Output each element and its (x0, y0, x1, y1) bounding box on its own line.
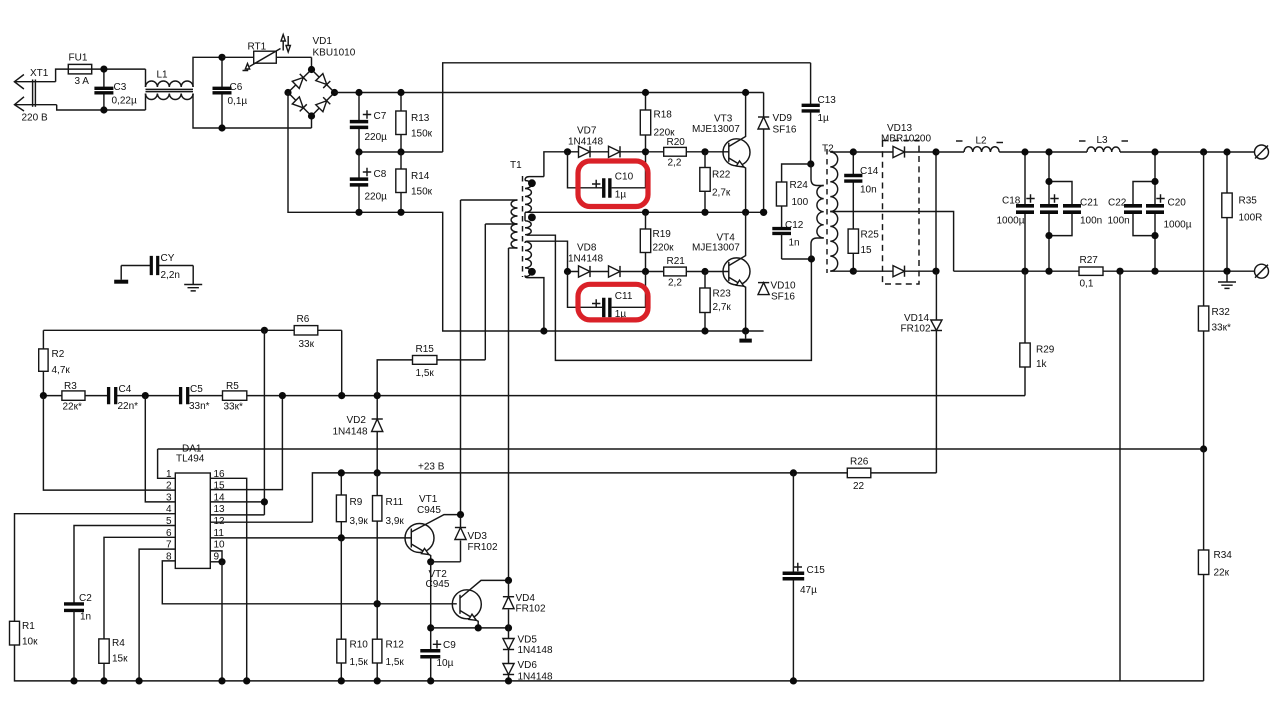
svg-text:1N4148: 1N4148 (568, 137, 603, 148)
svg-text:FR102: FR102 (468, 542, 498, 553)
transistor VT3 MJE13007 (705, 151, 729, 153)
transistor VT1 C945 (405, 524, 434, 553)
svg-text:RT1: RT1 (248, 42, 267, 53)
svg-text:1n: 1n (80, 612, 91, 623)
wire pin16 to ground (210, 478, 246, 681)
node R13 top (397, 89, 404, 96)
wire pin2 to R2-R3 node (43, 396, 175, 491)
resistor R14 (400, 152, 402, 212)
wire output plus rail (936, 151, 964, 153)
diode VD2 1N4148 (376, 396, 378, 419)
svg-text:SF16: SF16 (771, 292, 795, 303)
svg-text:C5: C5 (190, 384, 203, 395)
wire VT1 emitter to C9 (430, 562, 432, 650)
node C20 bottom (1151, 268, 1158, 275)
resistor R23 (704, 272, 706, 332)
resistor R9 (340, 473, 342, 495)
diode VD9 SF16 (763, 93, 765, 213)
svg-text:2,7к: 2,7к (712, 188, 731, 199)
node R23 bottom (701, 327, 708, 334)
svg-text:220к: 220к (653, 243, 675, 254)
svg-text:CY: CY (161, 253, 175, 264)
svg-text:220µ: 220µ (365, 192, 388, 203)
svg-text:220 В: 220 В (22, 113, 48, 124)
svg-text:FR102: FR102 (516, 604, 546, 615)
svg-text:22к: 22к (1214, 568, 1230, 579)
capacitor C11 (568, 272, 603, 308)
fuse FU1 (68, 68, 145, 70)
inductor L1 (145, 69, 147, 87)
node R11 bottom VT2 base (374, 600, 381, 607)
node emitter rail left (427, 624, 434, 631)
diode VD8 (two in series) (568, 271, 706, 273)
VD13 top diode (853, 151, 936, 153)
node bridge right (331, 89, 338, 96)
svg-text:R26: R26 (850, 457, 869, 468)
capacitor C4 (109, 387, 116, 404)
svg-text:KBU1010: KBU1010 (313, 48, 356, 59)
capacitor C6 (221, 57, 223, 88)
svg-text:1N4148: 1N4148 (518, 645, 553, 656)
ground symbol at VT4 emitter (745, 331, 747, 339)
transistor VT2 C945 (452, 590, 481, 619)
wire R6 to comp rail (341, 330, 343, 395)
svg-text:15к: 15к (112, 654, 128, 665)
wire pin10-pin9 to ground (210, 551, 222, 562)
svg-text:C2: C2 (79, 593, 92, 604)
node C2 bottom (70, 677, 77, 684)
node sense divider top (1200, 148, 1207, 155)
svg-text:100R: 100R (1239, 213, 1263, 224)
wire pin15 riser (210, 396, 282, 490)
svg-text:R2: R2 (52, 349, 65, 360)
capacitor C8 (358, 152, 360, 179)
svg-text:10n: 10n (860, 185, 877, 196)
svg-text:TL494: TL494 (176, 454, 205, 465)
svg-text:C9: C9 (443, 640, 456, 651)
wire pin4 to R1 (15, 514, 176, 622)
node pin15 riser (279, 392, 286, 399)
wire diode cathodes common (935, 152, 937, 271)
node C9 ground (427, 677, 434, 684)
node R18 top (642, 89, 649, 96)
svg-text:VD4: VD4 (516, 593, 536, 604)
wire CY left to chassis (120, 266, 122, 280)
node VT4 base (701, 268, 708, 275)
node VD2 anode +23V (374, 469, 381, 476)
node C14 top (850, 148, 857, 155)
capacitor C19 (second 1000u) (1048, 152, 1050, 206)
wire XT1 to FU1 (56, 69, 69, 82)
resistor R15 (377, 360, 412, 396)
svg-text:R14: R14 (411, 171, 430, 182)
node R10 ground (338, 677, 345, 684)
VD13 bottom diode (853, 270, 936, 272)
highlight box C10 (578, 161, 648, 207)
wire XT1 bottom to C3 (57, 105, 146, 110)
capacitor CY (121, 265, 151, 267)
svg-text:C7: C7 (374, 111, 387, 122)
svg-text:1N4148: 1N4148 (333, 427, 368, 438)
resistor R21 (664, 267, 687, 276)
svg-text:33к*: 33к* (1212, 323, 1231, 334)
svg-text:R34: R34 (1214, 550, 1233, 561)
svg-text:XT1: XT1 (30, 68, 49, 79)
resistor R18 (645, 93, 647, 152)
resistor R2 (42, 330, 44, 349)
svg-text:+23 В: +23 В (418, 462, 445, 473)
wire T1 primary center tap (485, 223, 517, 225)
svg-text:R4: R4 (112, 638, 125, 649)
diode VD7 (two in series) (568, 151, 646, 153)
capacitor C3 (103, 69, 105, 88)
svg-text:22к*: 22к* (63, 402, 82, 413)
svg-text:3 A: 3 A (75, 76, 90, 87)
svg-text:VD9: VD9 (773, 113, 793, 124)
resistor R29 (1024, 271, 1026, 343)
svg-text:C10: C10 (615, 172, 634, 183)
svg-text:R1: R1 (22, 621, 35, 632)
svg-text:1µ: 1µ (818, 113, 830, 124)
node R6-comp rail (338, 392, 345, 399)
node C21 bottom (1045, 232, 1052, 239)
T2 secondary winding lower (830, 212, 837, 271)
earth ground at output (1226, 271, 1228, 281)
svg-text:R21: R21 (667, 256, 686, 267)
node C22 top (1151, 178, 1158, 185)
transformer T1 core (522, 176, 524, 277)
svg-text:L2: L2 (976, 136, 988, 147)
svg-text:33n*: 33n* (189, 401, 210, 412)
node R9 top (338, 469, 345, 476)
svg-text:0,1µ: 0,1µ (228, 96, 248, 107)
T1 primary winding lower (511, 224, 517, 248)
svg-text:0,22µ: 0,22µ (112, 96, 137, 107)
svg-text:VD8: VD8 (577, 243, 597, 254)
node C13 bottom (807, 160, 814, 167)
node C8 bottom (355, 209, 362, 216)
wire pin6 to R4 (104, 537, 175, 639)
T1 winding M phase dot (528, 214, 536, 222)
svg-text:150к: 150к (411, 187, 433, 198)
node R2 bottom (40, 392, 47, 399)
capacitor C9 (420, 651, 440, 657)
svg-text:C8: C8 (374, 169, 387, 180)
svg-text:R10: R10 (350, 640, 369, 651)
svg-text:R18: R18 (654, 110, 673, 121)
wire RT1 to bridge (311, 57, 313, 69)
chassis ground (114, 280, 128, 284)
svg-text:33к*: 33к* (224, 402, 243, 413)
svg-text:VD2: VD2 (347, 415, 367, 426)
node pin16 ground (243, 677, 250, 684)
svg-text:22: 22 (853, 481, 865, 492)
node VD6 ground (505, 677, 512, 684)
svg-text:R29: R29 (1036, 345, 1055, 356)
resistor R6 (43, 329, 341, 331)
svg-text:R11: R11 (386, 497, 404, 508)
rectifier VD13 MBR10200 (883, 141, 920, 285)
resistor R32 sense divider (1203, 152, 1205, 306)
resistor R22 (704, 152, 706, 213)
resistor R1 (10, 621, 20, 645)
svg-text:L3: L3 (1097, 135, 1109, 146)
capacitor C2 (64, 604, 84, 611)
node C20 top (1151, 148, 1158, 155)
node C7 bottom (355, 148, 362, 155)
transformer T2 core (826, 149, 828, 273)
svg-text:15: 15 (861, 245, 873, 256)
node VD7 anode (564, 148, 571, 155)
snubber R25 (848, 229, 858, 253)
resistor R5 (223, 391, 247, 400)
node R12 ground (374, 677, 381, 684)
svg-text:4,7к: 4,7к (52, 365, 71, 376)
svg-text:C20: C20 (1168, 198, 1187, 209)
svg-text:R35: R35 (1239, 196, 1258, 207)
node pin14 (261, 498, 268, 505)
wire CY right to earth (192, 266, 194, 285)
svg-text:2,2: 2,2 (668, 158, 682, 169)
output terminal minus (1255, 264, 1269, 278)
svg-text:C11: C11 (615, 291, 633, 302)
wire pin11 to VT1 base (210, 537, 411, 539)
svg-text:VD5: VD5 (518, 635, 538, 646)
node R35 top (1223, 148, 1230, 155)
snubber R24 (782, 164, 811, 182)
svg-text:R32: R32 (1212, 307, 1231, 318)
inductor L3 (1087, 147, 1120, 152)
svg-text:3,9к: 3,9к (350, 516, 369, 527)
node C15 ground (790, 677, 797, 684)
svg-text:R19: R19 (653, 229, 672, 240)
wire switch-node rail T1 to VD9 (525, 211, 764, 213)
wire top half-rail (443, 63, 811, 152)
svg-text:2,7к: 2,7к (713, 302, 732, 313)
svg-text:VD1: VD1 (313, 36, 333, 47)
node VT4 emitter (742, 327, 749, 334)
capacitor C21 bypass (1049, 182, 1072, 206)
diode VD4 FR102 (508, 580, 510, 596)
node VD4 anode (505, 624, 512, 631)
node T2 primary bottom (808, 255, 815, 262)
svg-text:VD6: VD6 (518, 660, 538, 671)
svg-text:C21: C21 (1080, 198, 1099, 209)
diode VD14 FR102 (935, 271, 937, 320)
resistor R34 sense divider (1203, 449, 1205, 550)
capacitor C7 (358, 93, 360, 122)
svg-text:1,5к: 1,5к (386, 657, 405, 668)
wire bridge bottom to AC rail (311, 116, 313, 128)
svg-text:10µ: 10µ (437, 658, 454, 669)
svg-text:100: 100 (792, 197, 809, 208)
svg-text:C945: C945 (426, 579, 450, 590)
svg-text:1,5к: 1,5к (416, 368, 435, 379)
svg-text:2,2n: 2,2n (161, 270, 180, 281)
node C21 top (1045, 178, 1052, 185)
node pin9 ground (218, 677, 225, 684)
svg-text:C12: C12 (785, 220, 804, 231)
node R9 bottom (338, 534, 345, 541)
svg-text:15: 15 (214, 481, 226, 492)
node cathode bottom (932, 268, 939, 275)
svg-text:C14: C14 (860, 166, 879, 177)
svg-text:1000µ: 1000µ (1164, 220, 1192, 231)
earth ground (184, 285, 202, 291)
capacitor C15 (792, 473, 794, 573)
svg-text:10к: 10к (22, 637, 38, 648)
wire emitter rail (431, 627, 509, 629)
node R25 bottom (850, 268, 857, 275)
svg-text:100n: 100n (1080, 216, 1102, 227)
wire L1 to C6 top (193, 57, 222, 87)
resistor R19 (645, 212, 647, 271)
transistor VT4 MJE13007 (705, 271, 729, 273)
node R19 bottom (642, 268, 649, 275)
diode VD3 FR102 (460, 515, 462, 528)
wire C7-C8 mid rail (359, 151, 443, 153)
svg-text:C15: C15 (807, 565, 826, 576)
svg-text:R23: R23 (713, 289, 732, 300)
node VT1 collector (457, 511, 464, 518)
node R14 bottom (397, 209, 404, 216)
wire L1 to C6 bottom (193, 94, 312, 129)
svg-text:MBR10200: MBR10200 (881, 134, 931, 145)
svg-text:1,5к: 1,5к (350, 657, 369, 668)
connector XT1 (14, 75, 24, 90)
svg-text:R24: R24 (790, 180, 809, 191)
resistor R11 (376, 473, 378, 496)
node VT1 emitter (427, 558, 434, 565)
arrows up-down beside RT1 (282, 36, 284, 51)
node cathode top (932, 148, 939, 155)
wire pin7 to ground (139, 549, 175, 681)
node VT2 emitter (475, 624, 482, 631)
svg-text:2,2: 2,2 (668, 278, 682, 289)
resistor R13 (400, 93, 402, 153)
svg-text:VT3: VT3 (714, 114, 733, 125)
wire pin3 to C4-C5 node (145, 396, 175, 502)
svg-text:R15: R15 (416, 344, 435, 355)
wire T1 winding B bottom to ground rail (527, 278, 544, 331)
svg-text:3,9к: 3,9к (386, 516, 405, 527)
wire T1 winding M bottom to T2 primary return (527, 235, 812, 360)
node VD2 top (374, 392, 381, 399)
wire +23V rail (312, 473, 936, 522)
svg-text:C3: C3 (114, 82, 127, 93)
snubber C12 (781, 206, 783, 229)
node pin9 (218, 558, 225, 565)
T2 primary winding (817, 186, 824, 238)
wire T1 primary top to VT1 collector (461, 199, 518, 201)
node bridge bottom (308, 112, 315, 119)
node C6 top (218, 54, 225, 61)
node VT3 base (701, 148, 708, 155)
node VT2 collector T1 (505, 577, 512, 584)
svg-text:100n: 100n (1108, 216, 1130, 227)
node C22 bottom (1151, 232, 1158, 239)
T1 winding A phase dot (528, 179, 536, 187)
node R4 bottom (100, 677, 107, 684)
thermistor RT1 (222, 56, 312, 58)
node C15 +23V (790, 469, 797, 476)
output terminal plus (1255, 145, 1269, 159)
resistor R26 (847, 468, 871, 478)
svg-text:VD3: VD3 (468, 531, 488, 542)
wire pin8 to VT2 base (162, 561, 457, 604)
wire bottom ground rail (15, 645, 1204, 681)
svg-text:1N4148: 1N4148 (568, 254, 603, 265)
wire feedback rail to pin1 (158, 448, 1204, 450)
svg-text:R9: R9 (350, 497, 363, 508)
node R35 bottom (1223, 268, 1230, 275)
svg-text:0,1: 0,1 (1080, 279, 1094, 290)
node C19 bottom (1045, 268, 1052, 275)
wire pin14 riser (263, 330, 265, 515)
resistor R4 (99, 639, 109, 663)
wire T1 winding A top to VD7 (544, 152, 568, 177)
resistor R35 (1226, 152, 1228, 193)
svg-text:FR102: FR102 (901, 324, 931, 335)
node R22 bottom (701, 209, 708, 216)
T2 secondary winding upper (830, 152, 837, 211)
wire T2 center tap (830, 212, 953, 272)
svg-text:1000µ: 1000µ (997, 216, 1025, 227)
svg-text:C13: C13 (818, 95, 837, 106)
wire minus rail from bridge (288, 93, 764, 332)
svg-text:22n*: 22n* (118, 401, 139, 412)
svg-text:C4: C4 (119, 384, 132, 395)
node FU1-C3 (100, 66, 107, 73)
svg-text:T1: T1 (510, 160, 522, 171)
svg-text:R20: R20 (667, 137, 686, 148)
svg-text:1N4148: 1N4148 (518, 672, 553, 683)
svg-text:MJE13007: MJE13007 (692, 243, 740, 254)
T1 winding B phase dot (528, 268, 536, 276)
node VD9 anode (760, 209, 767, 216)
svg-text:R5: R5 (226, 381, 239, 392)
resistor R10 (340, 538, 342, 639)
svg-text:220µ: 220µ (365, 132, 388, 143)
IC DA1 TL494 body (175, 473, 210, 568)
node T1-B ground (540, 327, 547, 334)
svg-text:1n: 1n (789, 238, 800, 249)
highlight box C11 (578, 284, 648, 320)
wire compensation rail (43, 395, 108, 397)
svg-text:R6: R6 (297, 314, 310, 325)
svg-text:150к: 150к (411, 129, 433, 140)
wire T2 secondary bottom (830, 270, 853, 272)
node C7 top (355, 89, 362, 96)
transformer T1 winding A (525, 181, 531, 213)
capacitor C13 (810, 63, 812, 106)
resistor R27 (1079, 267, 1103, 275)
node R6 tap (261, 327, 268, 334)
resistor R20 (646, 151, 706, 153)
node R18 bottom (642, 148, 649, 155)
svg-text:R22: R22 (712, 170, 731, 181)
node feedback divider (1200, 445, 1207, 452)
svg-text:1k: 1k (1036, 359, 1048, 370)
resistor R3 (62, 391, 85, 400)
capacitor C10 (568, 152, 603, 188)
wire T2 secondary top (830, 151, 853, 153)
svg-text:R3: R3 (64, 381, 77, 392)
node C4-C5 (142, 392, 149, 399)
resistor R12 (376, 604, 378, 639)
capacitor C20 (1154, 152, 1156, 206)
svg-text:R12: R12 (386, 640, 405, 651)
